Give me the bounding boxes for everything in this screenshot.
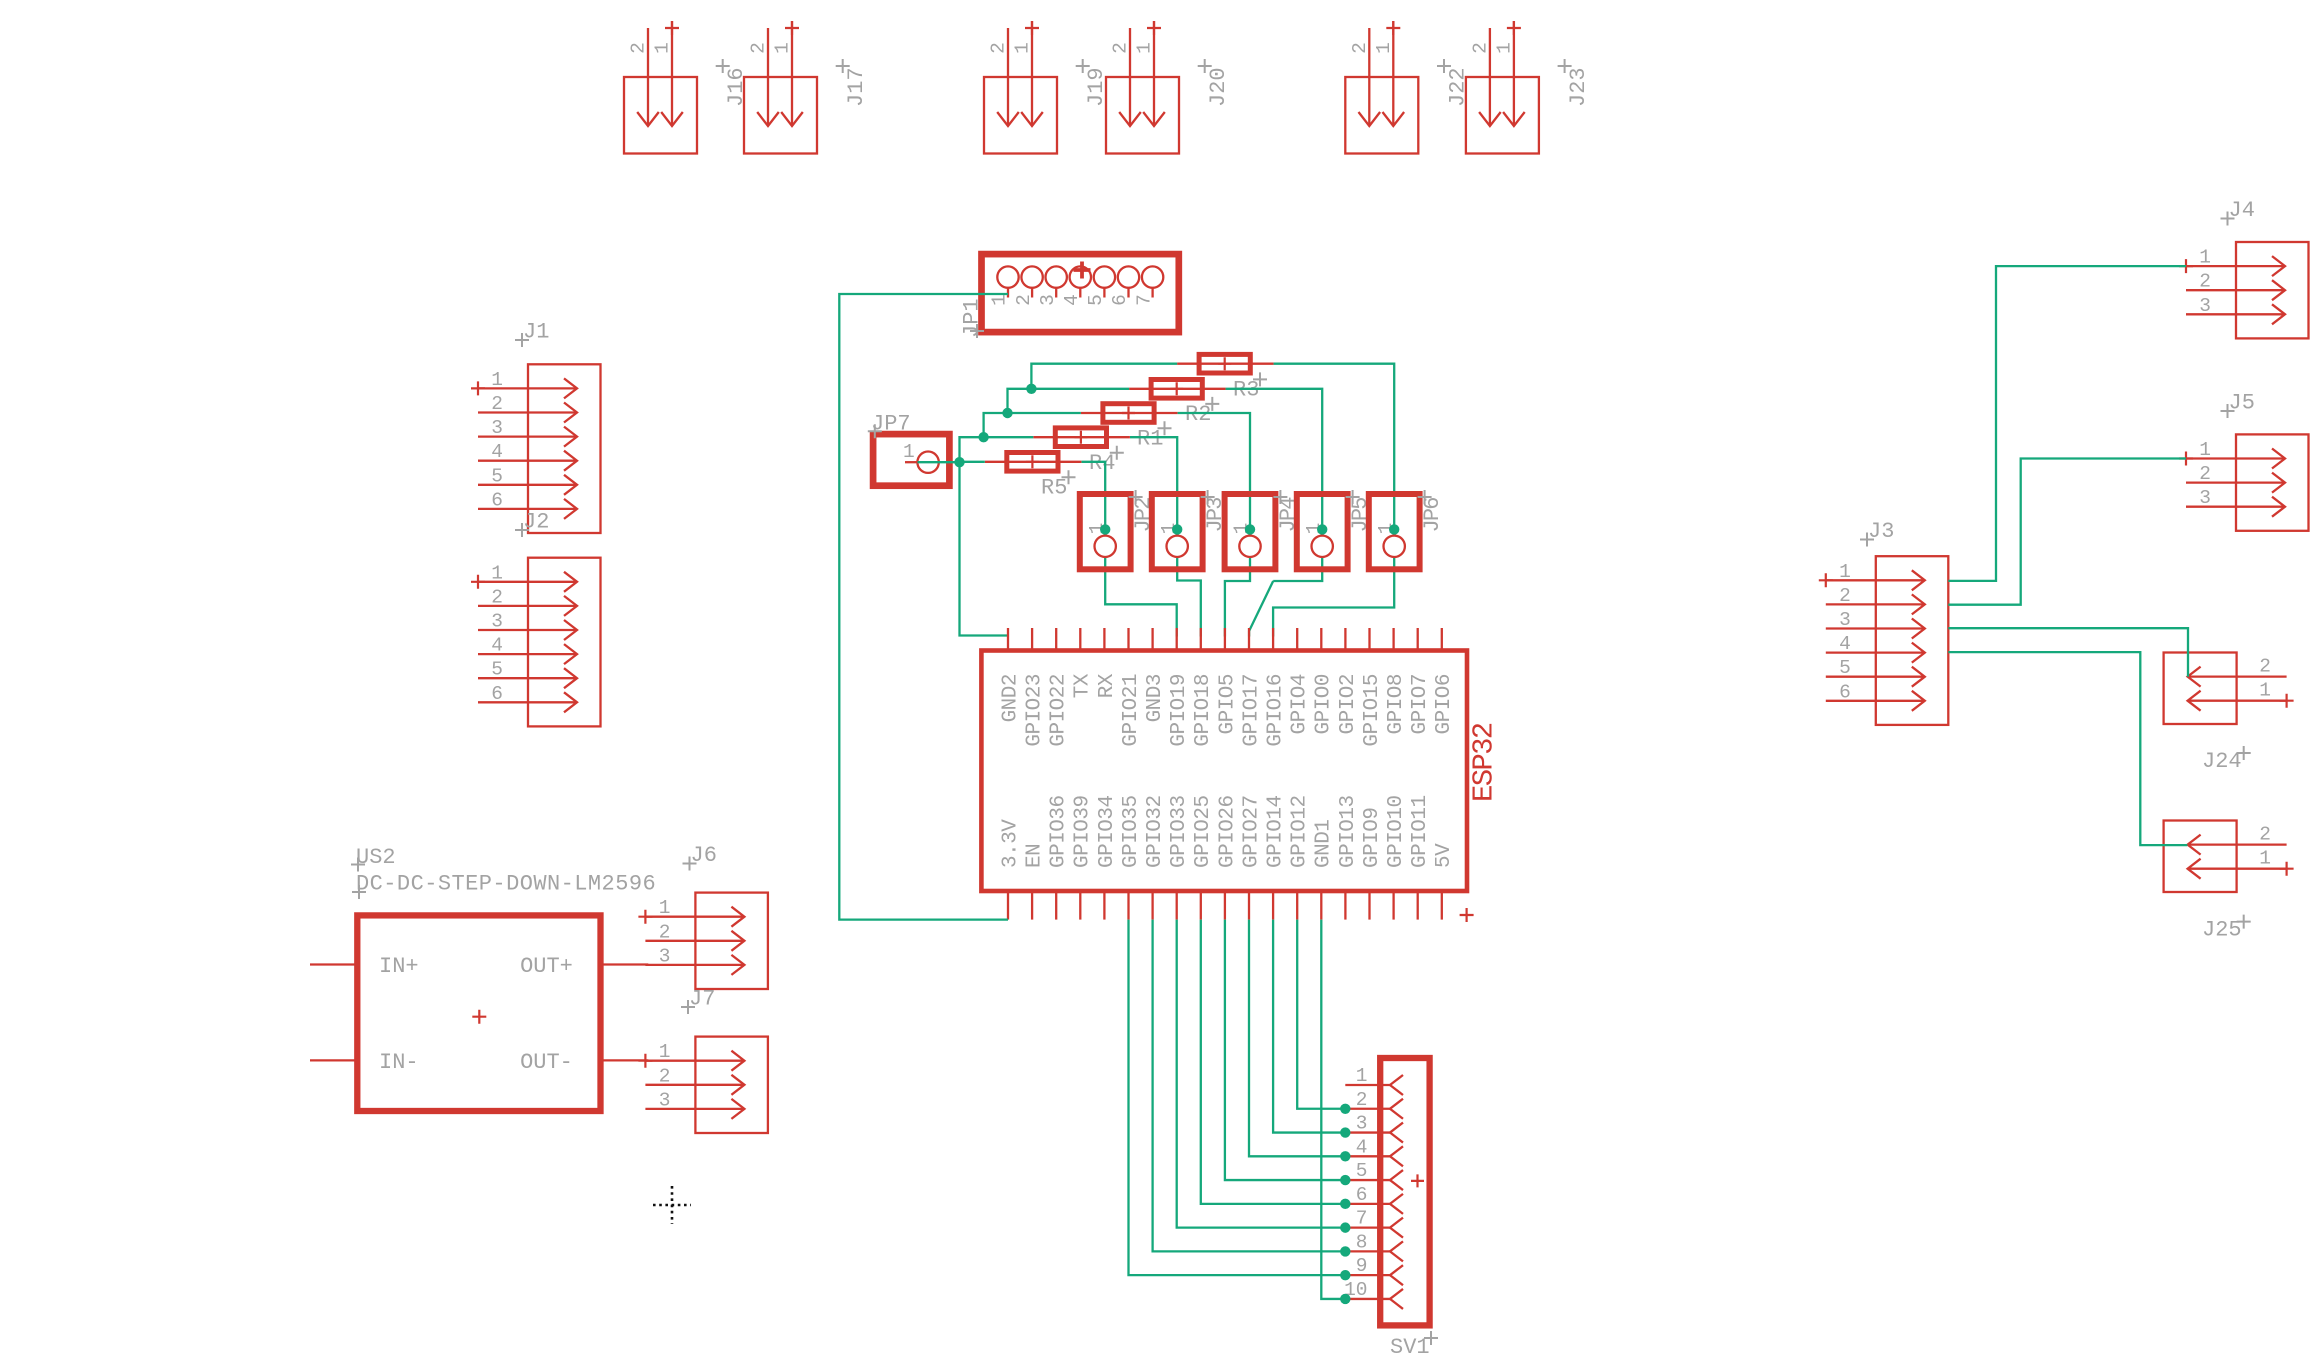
svg-text:2: 2: [659, 1065, 671, 1087]
junction at JP5 pin: [1317, 524, 1327, 534]
wire node C riser to R2 line: [1008, 389, 1032, 413]
connector J23 (2-pin header): [1466, 77, 1539, 154]
svg-text:4: 4: [1839, 633, 1851, 655]
connector J16 (2-pin header): [624, 77, 697, 154]
svg-text:3: 3: [659, 1089, 671, 1111]
svg-text:GPIO36: GPIO36: [1048, 795, 1071, 868]
svg-text:4: 4: [1061, 294, 1083, 306]
svg-text:3: 3: [491, 417, 503, 439]
svg-text:JP1: JP1: [960, 298, 985, 338]
connector JP1 (7-pin pad header): [982, 254, 1179, 332]
svg-text:9: 9: [1356, 1255, 1368, 1277]
svg-text:GPIO5: GPIO5: [1216, 674, 1239, 735]
svg-text:4: 4: [491, 441, 503, 463]
svg-text:3.3V: 3.3V: [999, 819, 1022, 868]
junction SV1 pin 6: [1340, 1199, 1350, 1209]
svg-text:2: 2: [491, 586, 503, 608]
junction at JP3 pin: [1172, 524, 1182, 534]
jumper JP7 (1-pin pad): [873, 434, 949, 486]
svg-text:1: 1: [903, 441, 915, 463]
svg-text:R2: R2: [1185, 402, 1211, 427]
svg-text:2: 2: [628, 42, 650, 54]
svg-text:GPIO19: GPIO19: [1168, 674, 1191, 747]
svg-text:GPIO21: GPIO21: [1120, 674, 1143, 747]
svg-text:5: 5: [491, 465, 503, 487]
resistor R2: [1129, 388, 1226, 390]
svg-text:GPIO12: GPIO12: [1289, 795, 1312, 868]
svg-text:GPIO6: GPIO6: [1433, 674, 1456, 735]
junction node A: [954, 457, 964, 467]
svg-text:GND2: GND2: [999, 674, 1022, 722]
svg-text:3: 3: [2199, 295, 2211, 317]
svg-text:GPIO2: GPIO2: [1337, 674, 1360, 735]
svg-text:1: 1: [659, 897, 671, 919]
wire JP6 to ESP32 pin: [1273, 557, 1394, 637]
wire resistor to JP4 feed: [1178, 413, 1250, 536]
svg-text:GPIO34: GPIO34: [1096, 795, 1119, 868]
svg-text:GPIO26: GPIO26: [1216, 795, 1239, 868]
svg-text:GPIO8: GPIO8: [1385, 674, 1408, 735]
junction SV1 pin 7: [1340, 1222, 1350, 1232]
connector J4 (3-pin header): [2236, 242, 2309, 338]
svg-text:2: 2: [659, 921, 671, 943]
svg-text:GPIO17: GPIO17: [1240, 674, 1263, 747]
wire node B to R4 lead: [984, 436, 1034, 438]
svg-text:GPIO39: GPIO39: [1072, 795, 1095, 868]
svg-text:2: 2: [1110, 42, 1132, 54]
svg-text:GPIO0: GPIO0: [1313, 674, 1336, 735]
svg-text:7: 7: [1133, 294, 1155, 306]
svg-text:US2: US2: [356, 845, 396, 870]
resistor R1: [1081, 412, 1178, 414]
wire ESP32 GPIO35 to SV1 pin 9: [1129, 920, 1346, 1276]
svg-text:1: 1: [491, 369, 503, 391]
svg-text:2: 2: [2199, 463, 2211, 485]
svg-text:GPIO4: GPIO4: [1289, 674, 1312, 735]
svg-text:1: 1: [1494, 42, 1516, 54]
svg-text:5: 5: [1085, 294, 1107, 306]
wire resistor to JP3 feed: [1130, 437, 1177, 535]
svg-text:GPIO23: GPIO23: [1024, 674, 1047, 747]
svg-text:2: 2: [1356, 1089, 1368, 1111]
connector J6 (3-pin header): [695, 893, 768, 989]
junction node B: [978, 432, 988, 442]
wire node D riser to R3 line: [1031, 364, 1177, 389]
svg-text:J17: J17: [844, 67, 869, 107]
svg-text:7: 7: [1356, 1208, 1368, 1230]
wire JP3 to ESP32 pin: [1177, 557, 1201, 637]
jumper JP5 (1-pin pad): [1297, 494, 1348, 569]
svg-text:1: 1: [1356, 1065, 1368, 1087]
svg-text:3: 3: [659, 945, 671, 967]
svg-text:1: 1: [1012, 42, 1034, 54]
svg-text:GPIO16: GPIO16: [1265, 674, 1288, 747]
svg-text:1: 1: [2199, 439, 2211, 461]
svg-text:TX: TX: [1072, 673, 1095, 698]
svg-text:GPIO13: GPIO13: [1337, 795, 1360, 868]
svg-text:GPIO9: GPIO9: [1361, 807, 1384, 868]
svg-text:2: 2: [2259, 656, 2271, 678]
connector J20 (2-pin header): [1106, 77, 1179, 154]
wire JP2 to ESP32 pin: [1105, 557, 1177, 637]
svg-text:GPIO27: GPIO27: [1240, 795, 1263, 868]
svg-text:1: 1: [1839, 561, 1851, 583]
svg-text:2: 2: [1470, 42, 1492, 54]
svg-text:1: 1: [491, 562, 503, 584]
svg-text:IN+: IN+: [379, 954, 419, 979]
svg-text:GPIO15: GPIO15: [1361, 674, 1384, 747]
svg-text:6: 6: [1356, 1184, 1368, 1206]
svg-text:GND1: GND1: [1313, 820, 1336, 868]
svg-text:OUT-: OUT-: [520, 1050, 573, 1075]
jumper JP2 (1-pin pad): [1080, 494, 1131, 569]
svg-text:4: 4: [491, 635, 503, 657]
svg-text:1: 1: [1134, 42, 1156, 54]
svg-text:3: 3: [491, 611, 503, 633]
wire ESP32 GPIO27 to SV1 pin 4: [1249, 920, 1345, 1157]
svg-text:5V: 5V: [1433, 843, 1456, 868]
svg-text:2: 2: [2199, 271, 2211, 293]
svg-text:EN: EN: [1024, 844, 1047, 868]
jumper JP3 (1-pin pad): [1152, 494, 1203, 569]
wire node B to R5 lead: [960, 461, 985, 463]
svg-text:6: 6: [1839, 681, 1851, 703]
svg-text:5: 5: [491, 659, 503, 681]
svg-text:J25: J25: [2202, 918, 2242, 943]
junction SV1 pin 2: [1340, 1104, 1350, 1114]
wire ESP32 GPIO12 to SV1 pin 2: [1297, 920, 1345, 1109]
svg-text:3: 3: [1356, 1113, 1368, 1135]
resistor R3: [1177, 363, 1274, 365]
svg-text:3: 3: [1839, 609, 1851, 631]
svg-text:1: 1: [989, 294, 1011, 306]
svg-text:GPIO32: GPIO32: [1144, 795, 1167, 868]
svg-text:RX: RX: [1096, 673, 1119, 698]
svg-text:2: 2: [491, 393, 503, 415]
svg-text:GPIO33: GPIO33: [1168, 795, 1191, 868]
wire J3 pin2 to J5 pin1: [1948, 459, 2186, 605]
svg-text:DC-DC-STEP-DOWN-LM2596: DC-DC-STEP-DOWN-LM2596: [356, 871, 656, 896]
svg-text:2: 2: [1013, 294, 1035, 306]
svg-text:R1: R1: [1137, 427, 1163, 452]
svg-text:R3: R3: [1233, 378, 1259, 403]
svg-text:OUT+: OUT+: [520, 954, 573, 979]
svg-text:ESP32: ESP32: [1468, 723, 1501, 802]
connector J22 (2-pin header): [1345, 77, 1418, 154]
wire node A down to ESP32 GND2: [960, 462, 1009, 635]
junction SV1 pin 8: [1340, 1246, 1350, 1256]
junction at JP6 pin: [1389, 524, 1399, 534]
svg-text:J20: J20: [1206, 67, 1231, 107]
svg-text:1: 1: [652, 42, 674, 54]
svg-text:6: 6: [491, 683, 503, 705]
connector J5 (3-pin header): [2236, 434, 2309, 530]
connector J19 (2-pin header): [984, 77, 1057, 154]
svg-text:GPIO35: GPIO35: [1120, 795, 1143, 868]
wire ESP32 GPIO25 to SV1 pin 6: [1201, 920, 1346, 1204]
wire node A riser to R4 line: [960, 437, 984, 462]
svg-text:J16: J16: [724, 67, 749, 107]
svg-text:3: 3: [2199, 487, 2211, 509]
junction at JP2 pin: [1100, 524, 1110, 534]
wire JP5 to ESP32 pin: [1273, 557, 1322, 581]
svg-text:R5: R5: [1041, 476, 1067, 501]
junction SV1 pin 10: [1340, 1294, 1350, 1304]
svg-text:5: 5: [1839, 657, 1851, 679]
svg-text:SV1: SV1: [1390, 1335, 1430, 1359]
jumper JP6 (1-pin pad): [1369, 494, 1420, 569]
svg-text:GPIO18: GPIO18: [1192, 674, 1215, 747]
svg-text:2: 2: [748, 42, 770, 54]
svg-text:6: 6: [1109, 294, 1131, 306]
wire node B riser to R1 line: [984, 413, 1008, 437]
svg-text:1: 1: [1373, 42, 1395, 54]
svg-text:JP7: JP7: [871, 412, 911, 437]
connector J3 (6-pin header): [1876, 556, 1949, 725]
connector SV1 (10-pin): [1380, 1058, 1429, 1325]
wire JP1 pin1 to ESP32 3.3V: [839, 294, 1008, 920]
wire JP4 to ESP32 pin: [1225, 557, 1250, 637]
svg-text:GPIO22: GPIO22: [1048, 674, 1071, 747]
connector J2 (6-pin header): [528, 558, 601, 727]
svg-text:5: 5: [1356, 1160, 1368, 1182]
wire resistor to JP5 feed: [1226, 389, 1323, 536]
svg-text:1: 1: [659, 1041, 671, 1063]
connector J1 (6-pin header): [528, 364, 601, 533]
wire J3 pin1 to J4 pin1: [1948, 266, 2186, 581]
connector J17 (2-pin header): [744, 77, 817, 154]
wire JP7 pin to net (node A): [918, 461, 960, 463]
junction SV1 pin 4: [1340, 1151, 1350, 1161]
svg-text:R4: R4: [1089, 451, 1115, 476]
junction SV1 pin 9: [1340, 1270, 1350, 1280]
svg-text:GPIO7: GPIO7: [1409, 674, 1432, 735]
svg-text:2: 2: [2259, 824, 2271, 846]
wire J3 pin4 to J25 pin2: [1948, 652, 2187, 845]
svg-text:1: 1: [2199, 247, 2211, 269]
svg-text:GPIO10: GPIO10: [1385, 795, 1408, 868]
connector J24 (2-pin): [2164, 653, 2237, 725]
svg-text:J24: J24: [2202, 749, 2242, 774]
resistor R4: [1033, 436, 1130, 438]
svg-text:GND3: GND3: [1144, 674, 1167, 722]
svg-text:6: 6: [491, 489, 503, 511]
wire ESP32 GPIO33 to SV1 pin 7: [1177, 920, 1346, 1228]
wire ESP32 GPIO32 to SV1 pin 8: [1153, 920, 1346, 1252]
connector J7 (3-pin header): [695, 1037, 768, 1133]
junction node C: [1002, 408, 1012, 418]
wire resistor to JP2 feed: [1082, 462, 1106, 536]
voltage regulator US2 DC-DC-STEP-DOWN-LM2596: [357, 915, 600, 1111]
svg-text:J23: J23: [1566, 67, 1591, 107]
wire ESP32 GPIO14 to SV1 pin 3: [1273, 920, 1345, 1133]
svg-text:4: 4: [1356, 1136, 1368, 1158]
svg-text:2: 2: [1839, 585, 1851, 607]
svg-text:8: 8: [1356, 1231, 1368, 1253]
wire node C to R1 lead: [1008, 412, 1081, 414]
svg-text:1: 1: [2259, 680, 2271, 702]
wire J3 pin3 to J24 pin2: [1948, 628, 2188, 676]
svg-text:2: 2: [988, 42, 1010, 54]
svg-text:IN-: IN-: [379, 1050, 419, 1075]
svg-text:1: 1: [2259, 848, 2271, 870]
IC ESP32 module: [981, 651, 1467, 892]
svg-text:1: 1: [772, 42, 794, 54]
junction SV1 pin 3: [1340, 1127, 1350, 1137]
svg-text:3: 3: [1037, 294, 1059, 306]
svg-text:GPIO25: GPIO25: [1192, 795, 1215, 868]
sheet origin crosshair: [653, 1186, 691, 1224]
junction SV1 pin 5: [1340, 1175, 1350, 1185]
wire node D to R2 lead: [1031, 388, 1129, 390]
connector J25 (2-pin): [2164, 821, 2237, 893]
resistor R5: [985, 461, 1082, 463]
wire resistor to JP6 feed: [1274, 364, 1395, 536]
svg-text:2: 2: [1349, 42, 1371, 54]
junction node D: [1026, 384, 1036, 394]
jumper JP4 (1-pin pad): [1225, 494, 1276, 569]
junction at JP4 pin: [1245, 524, 1255, 534]
wire ESP32 GPIO26 to SV1 pin 5: [1225, 920, 1345, 1180]
svg-text:GPIO14: GPIO14: [1265, 795, 1288, 868]
svg-text:GPIO11: GPIO11: [1409, 795, 1432, 868]
wire ESP32 GND1 to SV1 pin 10: [1321, 920, 1345, 1299]
